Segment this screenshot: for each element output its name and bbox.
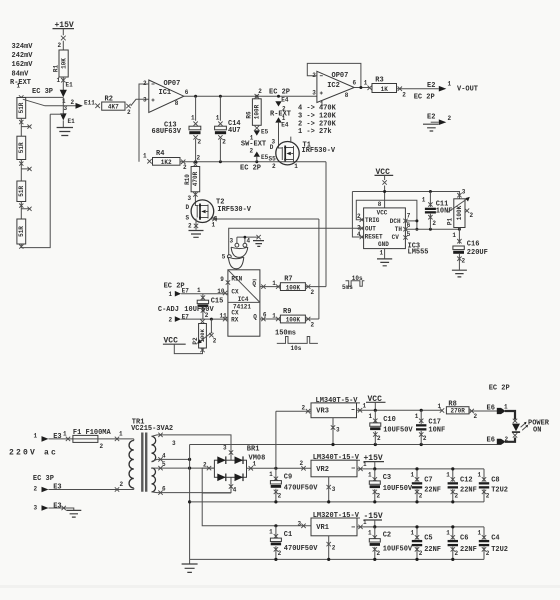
- svg-text:3: 3: [188, 195, 192, 202]
- svg-text:1: 1: [448, 81, 452, 88]
- svg-text:E2: E2: [427, 113, 435, 121]
- svg-text:2: 2: [377, 550, 381, 557]
- svg-text:2: 2: [188, 223, 192, 230]
- svg-text:1: 1: [364, 80, 368, 87]
- svg-text:C12: C12: [460, 477, 473, 485]
- IC3 pin marks: [360, 218, 408, 240]
- pin mark VR1 input: [274, 520, 305, 528]
- svg-text:2: 2: [419, 492, 423, 499]
- svg-text:1: 1: [504, 404, 508, 411]
- gate B lower NOR: [228, 257, 243, 269]
- svg-text:E5: E5: [261, 129, 269, 136]
- op-amp IC1 OP07: [149, 80, 184, 113]
- resistor R8 270R: [438, 401, 478, 421]
- svg-text:2: 2: [505, 436, 509, 443]
- power VCC P2: [163, 336, 203, 353]
- svg-text:C6: C6: [460, 534, 468, 542]
- svg-text:2: 2: [272, 163, 276, 170]
- connector E4 pin2: [275, 96, 289, 112]
- ground rail bottom: [190, 558, 484, 560]
- capacitor C1: [269, 526, 318, 560]
- waveform 5ms 10s: [342, 275, 364, 291]
- svg-text:5: 5: [222, 254, 226, 261]
- node E4: [277, 95, 280, 98]
- regulator VR2 LM340T-15-V: [311, 454, 360, 477]
- pin labels IC2: [312, 72, 356, 99]
- TR1 pin labels: [162, 440, 176, 493]
- svg-text:DCH: DCH: [390, 218, 401, 225]
- mV table text: [12, 43, 34, 79]
- svg-text:2: 2: [402, 91, 406, 98]
- svg-text:1: 1: [478, 471, 482, 478]
- svg-text:3: 3: [336, 427, 340, 434]
- svg-text:10K: 10K: [60, 58, 67, 69]
- svg-text:C16: C16: [467, 241, 480, 249]
- resistor R9 100K: [272, 308, 314, 329]
- svg-text:6: 6: [162, 485, 166, 492]
- wire gate output to IC4: [235, 269, 237, 271]
- svg-text:C3: C3: [383, 474, 391, 482]
- svg-text:C1: C1: [284, 531, 292, 539]
- svg-text:CX: CX: [231, 310, 239, 317]
- svg-text:1: 1: [34, 433, 38, 440]
- wire LED to E6 pin2 thick: [505, 438, 515, 442]
- wire E3 pin3 to ground: [49, 506, 74, 510]
- wire R1 to node: [62, 77, 64, 90]
- node R6 top: [255, 95, 258, 98]
- IC4 pin marks: [223, 280, 266, 321]
- resistor R1 10K: [52, 50, 68, 77]
- wire R2 to IC1 pin3: [131, 99, 149, 106]
- monostable IC4 74121: [228, 270, 260, 336]
- capacitor C6: [446, 527, 477, 560]
- svg-text:C7: C7: [424, 477, 432, 485]
- node C13 top: [194, 95, 197, 98]
- wire sec5 to bridge left: [152, 462, 215, 471]
- node P2 wiper: [210, 318, 213, 321]
- IC4 pin numbers: [217, 276, 267, 320]
- svg-text:2: 2: [377, 435, 381, 442]
- label POWER ON: [528, 420, 550, 435]
- svg-text:C15: C15: [211, 297, 224, 305]
- svg-text:470UF50V: 470UF50V: [284, 545, 318, 553]
- node TH joint: [415, 228, 418, 231]
- node C1 bottom: [274, 558, 277, 561]
- timer IC3 LM555: [364, 208, 429, 257]
- wire node1 to node3: [62, 97, 64, 114]
- svg-text:2: 2: [58, 42, 62, 49]
- svg-text:C-ADJ: C-ADJ: [158, 306, 179, 314]
- wire vertical A to R9: [318, 219, 320, 319]
- svg-text:2: 2: [470, 212, 474, 219]
- capacitor C2: [368, 527, 413, 560]
- LED power on: [512, 419, 528, 438]
- svg-text:51R: 51R: [18, 226, 25, 237]
- node C2 bottom: [373, 558, 376, 561]
- capacitor C11 10NF: [422, 192, 453, 230]
- svg-text:2: 2: [213, 338, 217, 345]
- svg-text:1: 1: [320, 101, 324, 108]
- capacitor C16 220UF: [453, 241, 488, 270]
- wire chain bottom return: [19, 114, 50, 249]
- connector E3 pin3: [34, 503, 62, 512]
- svg-text:51R: 51R: [18, 142, 25, 153]
- regulator VR3 LM340T-5-V: [311, 397, 360, 418]
- connector E6 pin1: [487, 404, 509, 415]
- power +15V: [53, 21, 75, 50]
- svg-text:3 -> 120K: 3 -> 120K: [298, 113, 337, 121]
- svg-text:242mV: 242mV: [12, 52, 34, 60]
- tap junction 1: [19, 118, 31, 136]
- svg-text:Q: Q: [252, 281, 256, 288]
- node C9 bottom: [274, 500, 277, 503]
- VR2 output rail +15V: [357, 461, 484, 471]
- svg-text:1: 1: [369, 413, 373, 420]
- svg-text:2: 2: [448, 115, 452, 122]
- svg-text:2: 2: [222, 139, 226, 146]
- wire plus rail up to VR3: [275, 411, 277, 468]
- node C11 top: [429, 190, 432, 193]
- svg-text:470R: 470R: [192, 171, 199, 186]
- connector E5 pin1: [250, 129, 269, 142]
- wire bridge minus to VR1 input: [202, 468, 311, 526]
- wire T2 gate line to A: [210, 217, 319, 221]
- resistor R7 100K: [272, 275, 314, 296]
- svg-text:VR2: VR2: [316, 466, 329, 474]
- wire OUT line: [229, 228, 364, 254]
- svg-text:100K: 100K: [286, 317, 301, 324]
- pin labels IC1: [143, 80, 189, 107]
- node C7 top: [415, 467, 418, 470]
- VR3 output rail: [357, 403, 442, 413]
- svg-text:2: 2: [432, 220, 436, 227]
- svg-text:2: 2: [302, 405, 306, 412]
- svg-text:22NF: 22NF: [460, 546, 477, 554]
- wire R10 to T2 gate: [195, 192, 198, 206]
- svg-text:3: 3: [172, 440, 176, 447]
- svg-text:1: 1: [415, 413, 419, 420]
- svg-text:OP07: OP07: [332, 72, 349, 80]
- wire E11 to R2: [95, 104, 100, 109]
- node DCH: [415, 219, 418, 222]
- ground rail left vertical: [189, 445, 191, 560]
- svg-text:E1: E1: [66, 82, 74, 89]
- tap junction 2: [19, 160, 31, 182]
- svg-text:RIN: RIN: [231, 275, 242, 282]
- svg-text:1: 1: [294, 163, 298, 170]
- svg-text:T2U2: T2U2: [491, 487, 508, 495]
- svg-text:E11: E11: [84, 99, 95, 106]
- svg-text:1: 1: [63, 431, 67, 438]
- fuse F1 F100MA: [73, 429, 112, 450]
- node P1 bottom: [458, 228, 461, 231]
- svg-text:2: 2: [120, 481, 124, 488]
- node 1 wire: [21, 96, 63, 98]
- ground IC3: [377, 249, 392, 266]
- resistor R3 1K: [368, 76, 407, 98]
- svg-text:EC 2P: EC 2P: [240, 165, 261, 173]
- svg-text:1: 1: [380, 250, 384, 257]
- svg-text:C9: C9: [284, 474, 292, 482]
- wire DCH stub: [405, 220, 417, 222]
- resistor R4 1K2: [143, 150, 187, 171]
- svg-text:1: 1: [143, 153, 147, 160]
- svg-text:VCC: VCC: [377, 210, 388, 217]
- svg-text:C5: C5: [424, 534, 432, 542]
- svg-text:3: 3: [34, 505, 38, 512]
- svg-text:10UF50V: 10UF50V: [383, 426, 413, 434]
- node C12 bottom: [451, 500, 454, 503]
- svg-text:1: 1: [17, 83, 21, 90]
- svg-text:2: 2: [377, 492, 381, 499]
- node C12 top: [451, 467, 454, 470]
- svg-text:51R: 51R: [18, 186, 25, 197]
- svg-text:470UF50V: 470UF50V: [284, 485, 318, 493]
- VR1 output rail -15V: [357, 519, 484, 529]
- connector E6 pin2: [487, 436, 509, 445]
- svg-text:270R: 270R: [450, 408, 465, 415]
- wire R3 to E2: [397, 88, 439, 90]
- svg-text:D: D: [186, 204, 190, 211]
- power -15V: [364, 512, 383, 528]
- VR2 ground pin: [327, 477, 336, 504]
- wire T2 source to ground: [195, 219, 197, 230]
- capacitor C15 10UF50V: [197, 287, 223, 319]
- svg-text:10NF: 10NF: [436, 208, 453, 216]
- svg-text:220V ac: 220V ac: [9, 449, 58, 458]
- wire TH line: [405, 228, 459, 230]
- bridge BR1 VM08: [214, 446, 265, 482]
- svg-text:100K: 100K: [199, 328, 206, 342]
- wire bridge plus output: [247, 460, 312, 471]
- svg-text:E3: E3: [53, 484, 61, 492]
- ground C16: [452, 270, 467, 277]
- wire IC2 output: [354, 87, 369, 89]
- wire sec6 to bridge bottom: [152, 477, 237, 495]
- svg-text:E3: E3: [53, 503, 61, 511]
- ground rail upper: [190, 444, 497, 446]
- svg-text:3: 3: [462, 189, 466, 196]
- svg-text:Q: Q: [253, 314, 257, 321]
- svg-text:3: 3: [230, 238, 234, 245]
- svg-text:100R: 100R: [253, 104, 260, 119]
- resistor chain 51R d: [17, 219, 26, 244]
- svg-text:2: 2: [455, 492, 459, 499]
- capacitor C3: [368, 469, 413, 502]
- wire R4 output line: [180, 161, 326, 163]
- svg-text:TH: TH: [395, 226, 403, 233]
- svg-text:E4: E4: [281, 122, 289, 129]
- capacitor C7: [411, 469, 442, 502]
- connector E4 pin1: [275, 115, 289, 129]
- svg-text:1 -> 27k: 1 -> 27k: [298, 128, 332, 136]
- op-amp IC2 OP07: [317, 71, 354, 107]
- svg-text:E5: E5: [261, 154, 269, 161]
- svg-text:4: 4: [233, 487, 237, 494]
- power VCC out: [366, 395, 386, 412]
- potentiometer P2 100K: [192, 319, 217, 352]
- svg-text:1: 1: [269, 471, 273, 478]
- node gnd rail mid: [188, 500, 191, 503]
- svg-text:2: 2: [423, 435, 427, 442]
- node C17 top: [420, 409, 423, 412]
- connector E1 pin1: [60, 82, 73, 98]
- svg-text:2: 2: [300, 460, 304, 467]
- capacitor C17: [415, 410, 446, 444]
- svg-text:GND: GND: [378, 241, 389, 248]
- svg-text:2: 2: [198, 139, 202, 146]
- svg-text:2: 2: [71, 99, 75, 106]
- svg-text:2: 2: [474, 413, 478, 420]
- wire E3 to fuse: [49, 431, 73, 442]
- svg-text:9: 9: [220, 276, 224, 283]
- resistor chain 51R b: [17, 136, 26, 159]
- svg-text:3: 3: [223, 445, 227, 452]
- svg-text:IRF530-V: IRF530-V: [302, 147, 336, 155]
- scan artifact band: [0, 585, 560, 588]
- VR3 ground pin: [331, 418, 340, 446]
- svg-text:EC 2P: EC 2P: [414, 94, 435, 102]
- svg-text:RX: RX: [231, 317, 239, 324]
- capacitor C14 4U7: [215, 96, 241, 162]
- connector E2 pin2 with ground: [423, 113, 452, 131]
- svg-text:2: 2: [278, 492, 282, 499]
- svg-text:2: 2: [250, 148, 254, 155]
- svg-text:VR3: VR3: [316, 408, 329, 416]
- svg-text:2: 2: [197, 155, 201, 162]
- svg-text:1: 1: [169, 291, 173, 298]
- svg-text:10UF50V: 10UF50V: [184, 306, 214, 314]
- wire IC1 pin2 feedback: [139, 84, 149, 162]
- svg-text:TRIG: TRIG: [365, 217, 380, 224]
- svg-text:22NF: 22NF: [424, 487, 441, 495]
- svg-text:6: 6: [353, 80, 357, 87]
- svg-text:R-EXT: R-EXT: [10, 79, 31, 87]
- wire fuse to TR1: [98, 431, 134, 442]
- svg-text:6: 6: [185, 89, 189, 96]
- node output IC2: [359, 86, 362, 89]
- svg-text:5: 5: [407, 231, 411, 238]
- svg-text:IC2: IC2: [327, 82, 340, 90]
- svg-text:1: 1: [253, 461, 257, 468]
- wire IC2 feedback loop: [307, 63, 361, 87]
- svg-text:4U7: 4U7: [228, 127, 241, 135]
- node C17 bottom: [420, 443, 423, 446]
- svg-text:1: 1: [212, 222, 216, 229]
- wire E7 pin1 to CX: [181, 293, 228, 295]
- resistor R10 470R: [184, 155, 200, 202]
- svg-text:1: 1: [216, 114, 220, 121]
- svg-text:P1: P1: [447, 218, 454, 226]
- svg-text:CX: CX: [231, 289, 239, 296]
- wire RESET loop: [352, 192, 363, 238]
- svg-text:1: 1: [446, 529, 450, 536]
- svg-text:S5: S5: [269, 156, 277, 163]
- wire E4 to T1 gate: [278, 123, 280, 147]
- connector E5 pin2: [250, 148, 269, 162]
- connector E7 pin1: [169, 287, 190, 298]
- svg-text:2: 2: [486, 550, 490, 557]
- node VCC stem: [383, 190, 386, 193]
- connector E2 pin1 V-OUT: [427, 81, 478, 94]
- capacitor C12: [446, 469, 477, 502]
- svg-text:1: 1: [422, 197, 426, 204]
- resistor R2 4K7: [102, 95, 125, 110]
- node C5 bottom: [415, 558, 418, 561]
- node C7 bottom: [415, 500, 418, 503]
- svg-text:P2: P2: [192, 337, 199, 345]
- svg-text:EC 2P: EC 2P: [489, 384, 510, 392]
- svg-text:1: 1: [446, 471, 450, 478]
- svg-text:T2U2: T2U2: [491, 546, 508, 554]
- svg-text:2: 2: [169, 316, 173, 323]
- wire IC1 output: [184, 95, 317, 97]
- label C-ADJ 10UF50V: [158, 306, 215, 314]
- svg-text:10UF50V: 10UF50V: [383, 485, 413, 493]
- svg-text:E6: E6: [487, 405, 495, 413]
- wire R8 to E6: [469, 410, 497, 412]
- svg-text:2: 2: [100, 443, 104, 450]
- svg-text:3: 3: [143, 96, 147, 103]
- svg-text:1: 1: [411, 471, 415, 478]
- svg-text:1: 1: [478, 529, 482, 536]
- gate A upper NOR: [231, 247, 248, 257]
- wire T1 source down B: [325, 162, 327, 287]
- VR1 ground pin: [327, 536, 336, 561]
- svg-text:3: 3: [332, 486, 336, 493]
- svg-text:2: 2: [486, 492, 490, 499]
- svg-text:5ms: 5ms: [342, 284, 353, 291]
- svg-text:E4: E4: [281, 96, 289, 103]
- svg-text:R1: R1: [52, 65, 59, 73]
- svg-text:OP07: OP07: [164, 80, 181, 88]
- connector E3 pin1: [34, 433, 62, 442]
- svg-text:R6: R6: [246, 111, 253, 119]
- node SW-EXT: [255, 160, 258, 163]
- capacitor C8: [478, 469, 509, 502]
- potentiometer P1 100K: [447, 189, 474, 244]
- svg-text:SW-EXT: SW-EXT: [241, 140, 266, 148]
- transistor T2 IRF530-V: [191, 199, 252, 223]
- rail VCC horizontal: [352, 191, 460, 193]
- svg-text:3: 3: [312, 90, 316, 97]
- svg-text:EC 2P: EC 2P: [269, 89, 290, 97]
- svg-text:10s: 10s: [291, 345, 302, 352]
- tap junction 3: [19, 202, 31, 220]
- svg-text:C2: C2: [383, 532, 391, 540]
- gate input bubbles pins 3,4: [222, 236, 259, 261]
- svg-text:51R: 51R: [18, 102, 25, 113]
- node C14 bottom: [219, 160, 222, 163]
- ground symbol main: [182, 559, 198, 572]
- svg-text:8: 8: [175, 100, 179, 107]
- svg-text:E1: E1: [68, 118, 76, 125]
- svg-text:2: 2: [311, 289, 315, 296]
- svg-text:4K7: 4K7: [108, 104, 119, 111]
- svg-text:3: 3: [298, 520, 302, 527]
- svg-text:E6: E6: [487, 437, 495, 445]
- connector E1 pin3: [60, 113, 75, 125]
- svg-text:E3: E3: [53, 433, 61, 441]
- svg-text:10NF: 10NF: [428, 426, 445, 434]
- svg-text:R-EXT: R-EXT: [270, 110, 291, 118]
- svg-text:4: 4: [162, 452, 166, 459]
- svg-text:LM555: LM555: [408, 249, 429, 257]
- transformer TR1 VC215-3VA2: [129, 419, 173, 492]
- wire R7 to B vertical: [305, 286, 326, 288]
- svg-text:VR1: VR1: [316, 524, 329, 532]
- node C11 bottom: [429, 228, 432, 231]
